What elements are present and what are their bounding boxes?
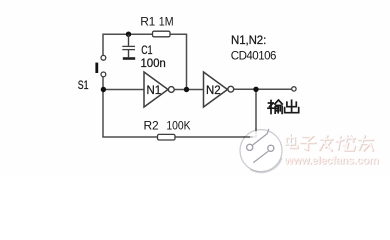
wire top-right from R1 to corner bbox=[170, 33, 187, 35]
output terminal bbox=[292, 87, 296, 91]
svg-text:R1: R1 bbox=[140, 15, 155, 29]
wire bottom horizontal right (R2 to output branch) bbox=[175, 136, 257, 138]
resistor R1 bbox=[153, 31, 171, 37]
wire left vertical upper (top corner to S1 top contact) bbox=[102, 34, 104, 56]
resistor R2 bbox=[158, 134, 176, 140]
wire right vertical from top corner down to N1 output node bbox=[186, 34, 188, 90]
wire output branch vertical down bbox=[255, 90, 257, 138]
label 输出 (output, drawn strokes) bbox=[268, 100, 299, 113]
wire top-left horizontal from S1 branch to R1 bbox=[103, 33, 153, 35]
svg-text:100K: 100K bbox=[166, 118, 190, 132]
wire fading stubs under watermark bbox=[244, 136, 251, 138]
watermark text 电子发烧友 (drawn strokes, embossed) bbox=[286, 135, 373, 151]
ground bbox=[123, 57, 135, 60]
svg-text:C1: C1 bbox=[141, 45, 152, 57]
node B: junction S1 / N1 input / bottom loop bbox=[101, 87, 106, 92]
svg-text:www.elecfans.com: www.elecfans.com bbox=[284, 155, 379, 167]
wire left vertical lower (S1 bottom contact to bottom corner) bbox=[102, 77, 104, 137]
capacitor C1 bbox=[122, 35, 135, 58]
svg-text:N1,N2:: N1,N2: bbox=[231, 35, 266, 47]
wire N2 output to output terminal bbox=[234, 88, 292, 90]
schmitt inverter N1 bbox=[144, 72, 174, 107]
schmitt inverter N2 bbox=[204, 72, 234, 107]
svg-text:N2: N2 bbox=[206, 85, 221, 97]
switch S1 (push button) bbox=[97, 55, 106, 76]
输 char bbox=[269, 102, 274, 104]
出 char bbox=[291, 100, 293, 111]
svg-text:1M: 1M bbox=[159, 15, 174, 29]
svg-text:N1: N1 bbox=[147, 85, 162, 97]
node A: junction of C1 with top wire bbox=[126, 32, 131, 37]
wire N1 input horizontal bbox=[104, 89, 145, 91]
watermark logo circle (elecfans) bbox=[240, 129, 282, 173]
node C: junction R1 right / N1 out / N2 in bbox=[184, 87, 189, 92]
svg-text:100n: 100n bbox=[141, 58, 166, 70]
node D: output junction bbox=[253, 87, 258, 92]
wire bottom horizontal left (corner to R2) bbox=[102, 136, 157, 138]
wire N1 output to N2 input bbox=[174, 89, 203, 91]
svg-text:R2: R2 bbox=[144, 118, 159, 132]
svg-text:CD40106: CD40106 bbox=[231, 51, 276, 63]
svg-text:S1: S1 bbox=[78, 80, 89, 92]
